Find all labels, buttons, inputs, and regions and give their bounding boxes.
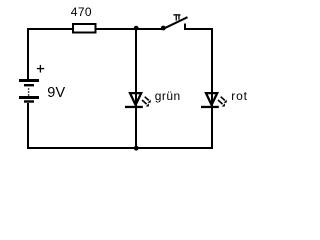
- wire top-middle segment: [96, 28, 162, 30]
- LED D1 green: [125, 92, 151, 108]
- wire right branch: [211, 30, 213, 147]
- node junction top: [134, 26, 139, 31]
- LED D2 cathode bar: [201, 106, 219, 108]
- wire bottom: [27, 147, 213, 149]
- LED D2 light arrow 2: [218, 100, 225, 107]
- LED D1 light arrow 1: [145, 97, 151, 103]
- svg-text:rot: rot: [231, 89, 248, 103]
- wire top-right segment: [184, 28, 213, 30]
- wire left lower: [27, 103, 29, 149]
- battery B1 9V: [19, 79, 39, 103]
- wire left upper: [27, 28, 29, 79]
- node junction bottom: [134, 146, 139, 151]
- wire top-left segment: [27, 28, 73, 30]
- svg-text:9V: 9V: [47, 85, 65, 101]
- switch lever: [163, 17, 187, 29]
- switch right contact post: [184, 24, 186, 31]
- LED D2 triangle: [204, 92, 219, 106]
- LED D2 light arrow 1: [221, 97, 227, 103]
- switch actuator tick left: [176, 16, 177, 21]
- switch S1: [161, 14, 188, 30]
- switch actuator bar: [173, 14, 180, 15]
- wire green LED branch: [135, 30, 137, 147]
- LED D1 triangle: [128, 92, 143, 106]
- svg-text:grün: grün: [155, 89, 181, 103]
- LED D1 cathode bar: [125, 106, 143, 108]
- switch left contact dot: [161, 26, 166, 31]
- LED D2 red: [201, 92, 227, 108]
- svg-text:470: 470: [71, 5, 92, 19]
- resistor R1 body: [73, 24, 96, 33]
- LED D1 light arrow 2: [142, 100, 149, 107]
- battery plus sign: [37, 65, 44, 73]
- switch actuator tick right: [178, 16, 179, 20]
